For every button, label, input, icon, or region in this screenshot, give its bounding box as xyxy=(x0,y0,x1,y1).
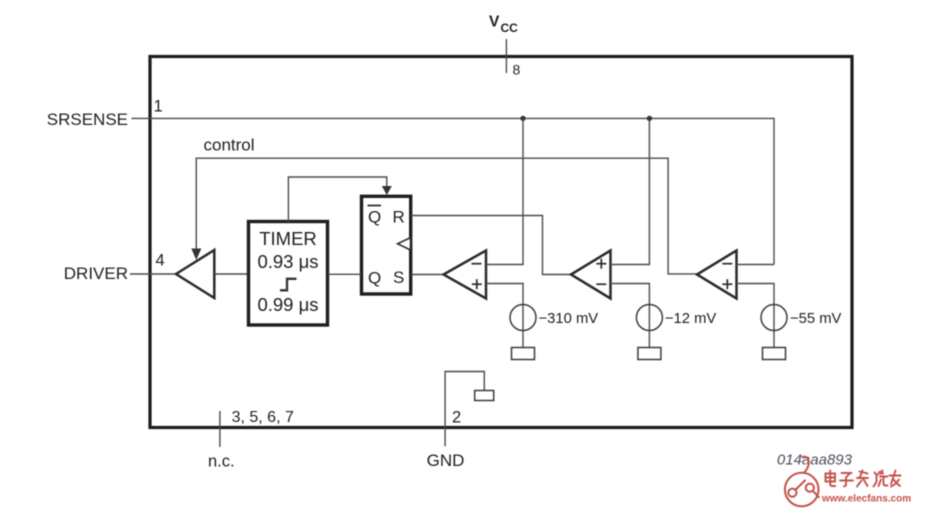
control arrowhead into driver xyxy=(191,249,201,261)
svg-text:3, 5, 6, 7: 3, 5, 6, 7 xyxy=(232,409,294,426)
svg-text:4: 4 xyxy=(156,252,165,270)
watermark chinese glyphs xyxy=(826,471,901,487)
svg-text:−55 mV: −55 mV xyxy=(790,311,842,327)
wire S to comparator U1 output xyxy=(411,274,444,276)
svg-text:2: 2 xyxy=(452,409,461,427)
U4 plus input wire to V3 xyxy=(737,284,775,348)
node dot B xyxy=(647,116,652,121)
svg-text:0.99 μs: 0.99 μs xyxy=(257,294,318,315)
svg-text:−310 mV: −310 mV xyxy=(539,311,599,327)
VCC pin wire xyxy=(505,39,507,73)
IC outline box xyxy=(150,57,852,428)
wire timer top loop to flip-flop xyxy=(288,177,386,222)
GND pin wire xyxy=(445,372,484,447)
U4 minus input wire from SRSENSE end xyxy=(737,264,775,266)
voltage source V1 xyxy=(510,305,536,331)
svg-text:1: 1 xyxy=(154,98,163,116)
svg-text:SRSENSE: SRSENSE xyxy=(47,110,128,129)
U1 minus input wire from SRSENSE node A xyxy=(486,118,523,264)
comparator U5 xyxy=(571,251,611,299)
svg-text:DRIVER: DRIVER xyxy=(64,264,128,283)
U5 minus mark xyxy=(596,283,606,285)
control wire from comparator U4 output xyxy=(196,158,697,274)
V2 ground bar xyxy=(638,348,661,360)
VCC label xyxy=(489,14,518,36)
comparator U1 xyxy=(444,251,487,299)
V1 ground bar xyxy=(512,348,535,360)
svg-text:0.93 μs: 0.93 μs xyxy=(257,251,318,272)
U5 plus mark xyxy=(596,259,606,269)
svg-text:R: R xyxy=(393,208,405,227)
GND substrate bar xyxy=(475,391,494,401)
svg-text:TIMER: TIMER xyxy=(259,228,317,249)
svg-text:control: control xyxy=(204,136,255,155)
driver buffer triangle xyxy=(176,250,214,298)
V3 ground bar xyxy=(763,348,786,360)
U4 minus mark xyxy=(722,263,732,265)
U1 plus input wire to V1 xyxy=(486,284,523,348)
node dot A xyxy=(520,116,525,121)
wire timer to flip-flop Q xyxy=(328,273,362,275)
svg-text:014aaa893: 014aaa893 xyxy=(777,452,853,469)
U5 minus input wire to V2 xyxy=(611,284,650,348)
wire driver to timer xyxy=(214,273,248,275)
svg-text:GND: GND xyxy=(427,451,465,470)
svg-text:Q: Q xyxy=(368,269,381,288)
timer pulse-edge symbol xyxy=(280,279,297,291)
U5 plus input wire from SRSENSE node B xyxy=(611,118,650,264)
wire R to comparator U5 output xyxy=(411,216,571,275)
U4 plus mark xyxy=(722,279,732,289)
clock triangle xyxy=(398,238,411,250)
voltage source V2 xyxy=(636,305,662,331)
U1 plus mark xyxy=(472,279,482,289)
watermark logo xyxy=(785,457,819,507)
svg-text:−12 mV: −12 mV xyxy=(665,311,717,327)
DRIVER pin wire xyxy=(130,273,176,275)
svg-text:Q: Q xyxy=(368,208,381,227)
svg-text:n.c.: n.c. xyxy=(208,453,235,471)
flip-flop U3 xyxy=(362,196,411,294)
voltage source V3 xyxy=(761,305,787,331)
svg-text:www.elecfans.com: www.elecfans.com xyxy=(821,494,911,505)
comparator U4 xyxy=(697,251,737,299)
n.c. pin tick xyxy=(219,411,221,447)
SRSENSE wire xyxy=(132,118,775,264)
svg-text:S: S xyxy=(393,268,404,287)
svg-text:CC: CC xyxy=(501,21,519,35)
svg-text:8: 8 xyxy=(513,62,521,78)
U1 minus mark xyxy=(472,263,482,265)
svg-text:V: V xyxy=(489,14,500,31)
TIMER block U2 xyxy=(249,222,328,326)
arrowhead into flip-flop top xyxy=(382,186,392,195)
